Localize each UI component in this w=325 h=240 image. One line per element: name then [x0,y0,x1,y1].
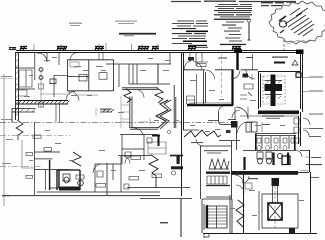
toilets row lower [257,152,272,159]
dashed centerline of shaft [274,186,276,228]
left page edge vertical [3,74,5,206]
upper-left room partitions [16,52,35,89]
misc small fixtures mid right bldg [219,112,234,125]
elevator room dark south wall [258,111,299,115]
notes left column text [172,21,208,48]
corridor upper wall segment [68,88,158,91]
left lower exterior [22,140,34,168]
room tag boxes [26,135,162,187]
Z-break left of corridor wall [124,89,131,103]
vertical partition x107 lower [106,163,108,195]
left exterior wall hatched [16,52,19,120]
vertical break zigzag [236,200,244,227]
dark cluster near wall x235 [231,121,238,128]
stub below bottom wall [204,233,209,238]
rooms lower-left [35,122,71,195]
small marker square [296,73,301,78]
door arc into front room [206,70,215,79]
bottom-right big room [203,150,317,234]
hatched band [100,109,114,112]
corridor details x234-258 [231,70,240,79]
sheet top edge line [171,0,296,2]
dark band under sawtooth [206,172,230,174]
notes column symbol bar [248,22,251,40]
faint partition x121 [121,96,130,128]
top exterior wall (double) [16,51,183,53]
mid-right walls [255,134,296,136]
hatched corridor wall left [16,101,68,105]
sink circle right of toilet room [78,180,84,186]
right bldg top room partitions [190,53,208,67]
right wall upper [299,112,301,146]
dark toilet room [57,170,80,190]
toilet room dark floor bar [59,187,80,191]
corridor door arcs [134,128,143,135]
plan title text [119,33,156,36]
annex rooms west side [201,141,233,199]
right edge wall of left building [181,52,184,237]
top wall continuation [183,51,303,53]
staircase with horizontal treads [206,206,227,228]
big spiky break on south wall [156,100,168,128]
dark lintels right [188,46,241,50]
A/C label and misc text right building [160,120,321,223]
large room upper-center [68,60,114,91]
room inner box [19,70,32,87]
dark partition stubs in bath zone [245,153,289,171]
centerline dash-dot [0,121,236,123]
room label specks [24,57,304,216]
center rooms block [120,135,158,165]
toilet fixture [63,174,70,181]
machine hatch marks [266,81,281,100]
y70 wall across [183,69,258,71]
left wall break zigzag [16,120,23,140]
jagged wall near toilet room [72,152,81,166]
top-right mini text block [261,2,296,6]
cloud circle symbol [279,21,287,27]
annex lower room [202,199,232,233]
hatched wall corner lower-left [12,109,35,123]
sawtooth shelving [209,159,229,169]
corridor south wall [130,127,158,129]
corner hatch block [9,47,16,50]
bathroom partitions row [262,136,289,149]
revision cloud [269,1,325,44]
boundary zigzag between buildings [184,130,221,137]
lintel hatch blocks above wall [20,46,159,50]
notes right column paragraph [214,4,252,45]
fixtures along right wall [294,118,299,143]
partition x59 [58,52,60,65]
door arc top-left [38,53,47,62]
elevator dashed pit box [263,76,285,104]
bottom long match line [2,195,160,197]
cloud interior scribble text [279,8,314,36]
mid rooms of left building [95,156,121,192]
Z-break right of corridor wall [155,88,163,103]
misc interior details upper [50,75,68,97]
thick vertical wall x237 [236,51,238,70]
grid risers above wall [34,43,158,50]
dark wall band y171-175 [231,171,298,175]
door arc to corridor [69,91,79,101]
small column circles [39,68,43,72]
locker row [207,176,227,184]
faint title texts above plan [69,21,137,27]
right margin leaders + tiny labels [300,78,310,171]
delta triangle [292,60,298,65]
double door arcs at front room [184,60,194,70]
front room with thick walls [204,70,206,105]
dumbwaiter shaft [272,178,280,186]
cloud leader dashed vertical [283,40,285,51]
elevator machine cross [271,75,276,107]
labels near elevator [218,57,288,64]
door arcs opening right [303,118,310,125]
text under dark wall [262,116,284,119]
fixtures in rooms [79,73,107,81]
corridor east wall [174,85,176,128]
small marks row (dimensions) [40,94,150,124]
corridor west wall double [130,97,132,129]
elevator room outline [258,54,301,109]
door arcs lower corridor [235,175,243,183]
